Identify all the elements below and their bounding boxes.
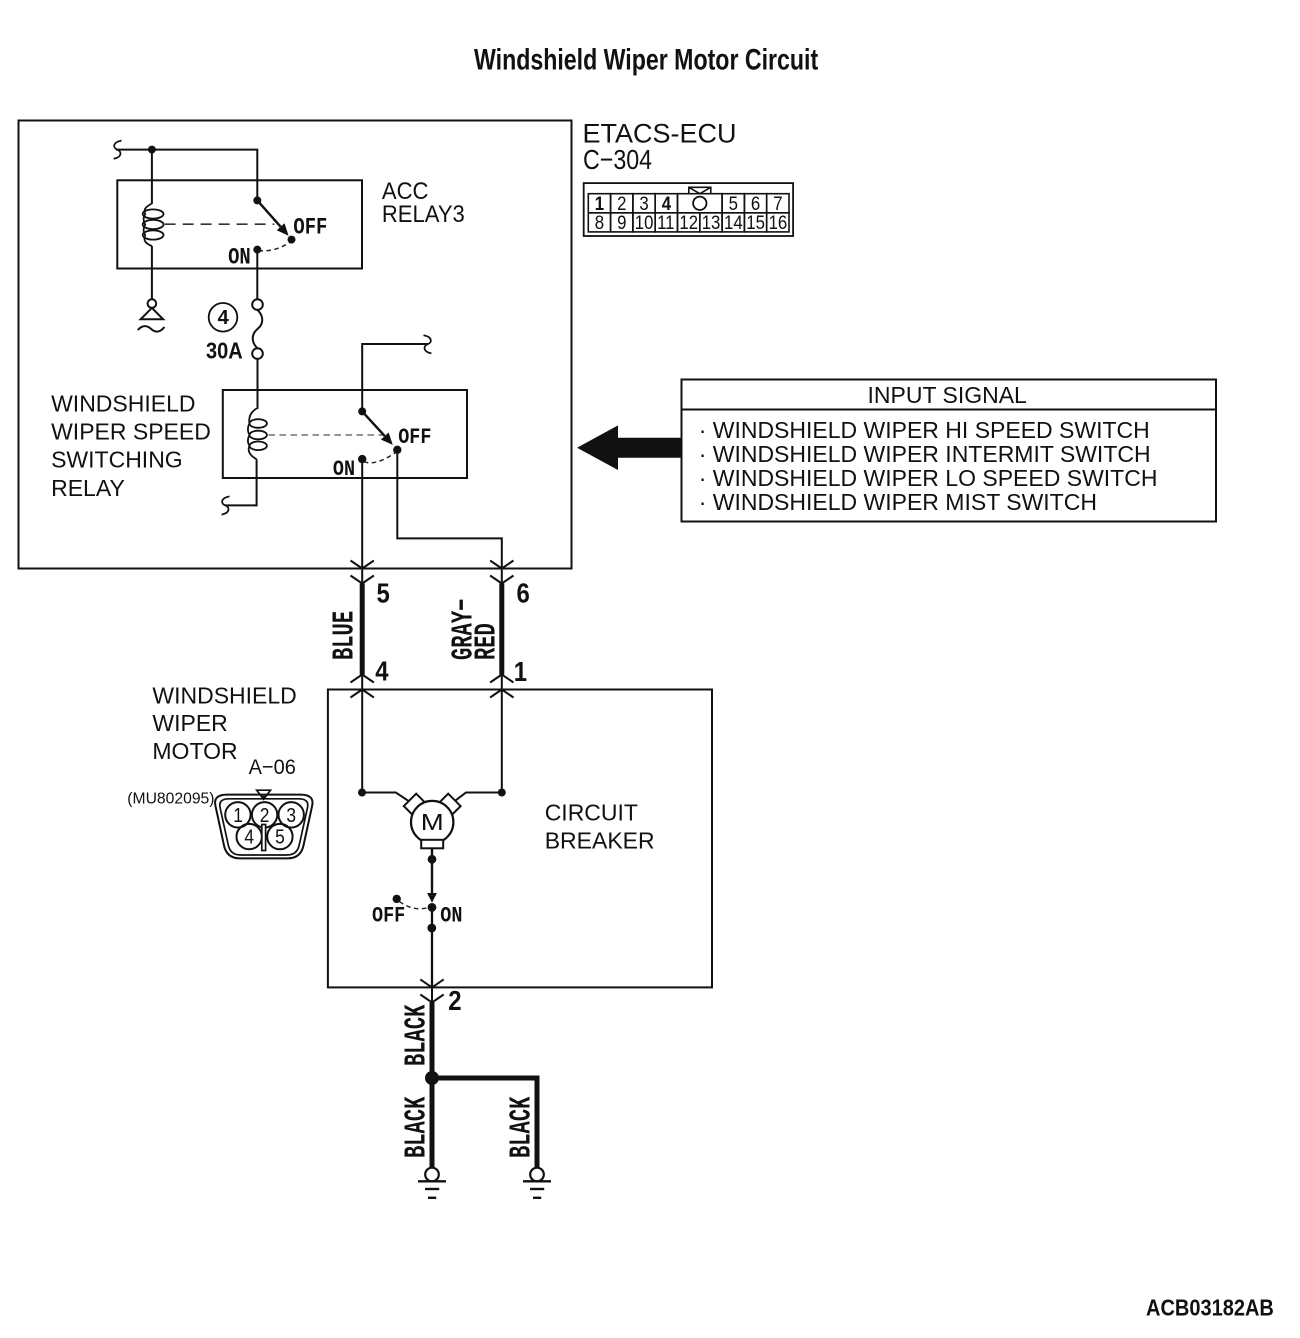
svg-text:13: 13 [702,212,721,233]
node breaker out [427,924,436,933]
connector chevron pin 4 (motor side) [351,690,374,698]
wire common contact to cut mark (speed relay top) [362,344,428,411]
svg-text:10: 10 [635,212,654,233]
connector A-06 cavity 2 [252,802,277,827]
label WINDSHIELD WIPER MOTOR [152,682,296,764]
svg-text:12: 12 [679,212,698,233]
connector A-06 cavity 3 [279,802,304,827]
svg-text:14: 14 [724,212,743,233]
svg-text:BREAKER: BREAKER [545,828,655,854]
svg-text:15: 15 [746,212,765,233]
svg-text:OFF: OFF [372,904,405,929]
ETACS-ECU module outline box [19,121,572,569]
wire coil lead out (speed relay, bottom left) [225,459,257,505]
svg-text:C−304: C−304 [583,145,652,175]
contact ON (speed relay) [358,455,366,463]
svg-text:CIRCUIT: CIRCUIT [545,800,638,826]
svg-text:8: 8 [595,212,604,233]
svg-text:OFF: OFF [293,215,327,241]
contact ON (ACC) [253,246,261,254]
INPUT SIGNAL box [682,380,1217,522]
svg-text:GRAY−RED: GRAY−RED [445,599,504,660]
wire coil bottom lead to ground [151,246,153,299]
wire coil top lead [151,150,153,204]
svg-text:ON: ON [228,245,251,271]
svg-text:WIPER: WIPER [152,710,227,736]
svg-text:ETACS-ECU: ETACS-ECU [583,118,737,148]
svg-text:4: 4 [244,825,254,847]
wire cut mark (speed relay coil lead) [222,496,230,514]
wire OFF contact down to pin 6 exit [397,454,502,569]
svg-text:30A: 30A [206,337,243,364]
node below motor [428,855,437,864]
connector A-06 key slot [262,825,266,851]
wire BLUE (thick) [360,584,365,675]
relay switch blade (ACC) [257,200,280,226]
connector C-304 keying tab [689,187,711,193]
dashed actuation link (ACC coil to blade) [165,223,275,225]
dashed throw arc (speed relay) [364,453,395,463]
wire pin 4 to motor brush [362,675,416,807]
connector A-06 body [215,795,312,859]
svg-text:· WINDSHIELD WIPER LO SPEED SW: · WINDSHIELD WIPER LO SPEED SWITCH [699,465,1158,491]
node: right brush junction [498,789,506,797]
svg-text:2: 2 [260,804,270,826]
motor M1 armature circle [411,801,453,843]
node: left brush junction [358,789,366,797]
wire breaker to pin 2 exit [431,907,433,987]
motor brush right [436,794,461,819]
connector chevron pin 1 (harness side) [490,675,513,683]
ground (left body ground) [418,1168,446,1198]
ground (ACC relay coil) [138,299,165,331]
svg-text:INPUT SIGNAL: INPUT SIGNAL [868,382,1028,408]
connector C-304 pin grid [588,194,789,232]
relay contact common (speed relay) [358,407,366,415]
windshield wiper motor unit box (circuit breaker) [328,690,712,988]
svg-text:OFF: OFF [398,426,431,451]
svg-text:1: 1 [514,658,527,688]
wire ON contact down to pin 5 exit [361,463,363,569]
node: coil/contact feed junction [148,146,156,154]
connector chevron pin 2 (motor side) [420,979,443,987]
wire cut mark (top left) [114,141,122,159]
svg-text:2: 2 [448,986,461,1016]
wire pin 1 to motor brush [448,675,502,807]
connector C-304 keyway circle [693,197,706,210]
svg-text:· WINDSHIELD WIPER INTERMIT SW: · WINDSHIELD WIPER INTERMIT SWITCH [699,441,1151,467]
fuse number (4) [209,303,238,332]
svg-text:· WINDSHIELD WIPER HI SPEED SW: · WINDSHIELD WIPER HI SPEED SWITCH [699,417,1150,443]
connector C-304 outer box [584,183,793,236]
svg-text:RELAY3: RELAY3 [382,200,465,227]
svg-text:3: 3 [286,804,296,826]
svg-text:M: M [421,810,444,835]
svg-text:WINDSHIELD: WINDSHIELD [51,391,195,417]
svg-text:5: 5 [377,579,390,609]
connector chevron pin 5 (ECU side) [351,561,374,569]
relay contact common (ACC) [253,196,261,204]
wire BLACK branch (thick) [432,1078,537,1168]
input signal arrow [577,425,682,470]
wire motor to breaker switch [431,848,433,893]
svg-text:5: 5 [275,825,285,847]
connector chevron pin 2 (harness side) [420,995,443,1003]
svg-text:BLACK: BLACK [399,1096,434,1158]
contact OFF (ACC) [288,236,296,244]
svg-text:6: 6 [517,579,530,609]
svg-text:ON: ON [440,904,462,929]
wire pin 2 connector stub [431,987,433,1002]
node: ground splice [425,1071,439,1085]
svg-text:(MU802095): (MU802095) [127,791,214,808]
wire GRAY-RED (thick) [499,584,504,675]
label WINDSHIELD WIPER SPEED SWITCHING RELAY [51,391,211,501]
connector chevron pin 5 (harness side) [351,576,374,584]
connector A-06 cavity 5 [267,824,292,849]
connector chevron pin 1 (motor side) [490,690,513,698]
wire fuse to speed relay coil [257,359,259,409]
svg-text:SWITCHING: SWITCHING [51,447,183,473]
relay coil (ACC RELAY3) [143,204,164,247]
wire cut mark (speed relay top right) [424,335,432,353]
svg-text:BLUE: BLUE [327,611,362,660]
svg-text:RELAY: RELAY [51,475,125,501]
svg-text:WINDSHIELD: WINDSHIELD [152,682,296,708]
connector A-06 cavity 1 [225,802,250,827]
relay switch blade (speed relay) [362,411,385,436]
svg-text:9: 9 [617,212,626,233]
node breaker common [428,903,437,912]
wire ON contact to fuse [256,250,258,300]
svg-text:1: 1 [233,804,243,826]
relay coil (speed switching) [248,409,267,460]
connector chevron pin 4 (harness side) [351,675,374,683]
svg-text:WIPER SPEED: WIPER SPEED [51,419,211,445]
svg-text:4: 4 [218,307,230,329]
relay WINDSHIELD WIPER SPEED SWITCHING RELAY box [223,390,467,478]
motor brush left [404,794,429,819]
connector chevron pin 6 (ECU side) [490,561,513,569]
wire B+ feed (top horizontal) [116,150,257,201]
svg-text:11: 11 [657,212,674,233]
wire pin 6 connector stub [501,569,503,584]
svg-text:ON: ON [333,458,355,483]
motor terminal block [421,840,443,849]
svg-text:A−06: A−06 [249,755,296,779]
ground (right body ground) [523,1168,551,1198]
breaker blade arrow [427,893,437,903]
svg-text:BLACK: BLACK [504,1096,539,1158]
svg-text:· WINDSHIELD WIPER MIST SWITCH: · WINDSHIELD WIPER MIST SWITCH [699,489,1097,515]
connector chevron pin 6 (harness side) [490,576,513,584]
contact OFF (breaker) [393,895,401,903]
svg-text:16: 16 [769,212,788,233]
svg-text:BLACK: BLACK [399,1004,434,1066]
connector A-06 index triangle [257,790,271,799]
svg-text:MOTOR: MOTOR [152,738,237,764]
dashed throw arc (breaker) [400,902,428,909]
connector A-06 cavity 4 [237,824,262,849]
fuse F4 30A (fusible link) [252,299,263,359]
wire pin 5 connector stub [361,569,363,584]
wire BLACK main (thick) [430,1003,435,1168]
svg-text:Windshield Wiper Motor Circuit: Windshield Wiper Motor Circuit [474,43,818,77]
dotted actuation link (speed relay) [269,434,384,436]
contact OFF (speed relay) [393,446,401,454]
dashed throw arc (ACC ON to OFF) [259,243,290,251]
svg-text:ACB03182AB: ACB03182AB [1146,1294,1274,1321]
input signal list [699,417,1158,515]
relay ACC RELAY3 box [117,180,362,268]
svg-text:4: 4 [375,657,389,687]
